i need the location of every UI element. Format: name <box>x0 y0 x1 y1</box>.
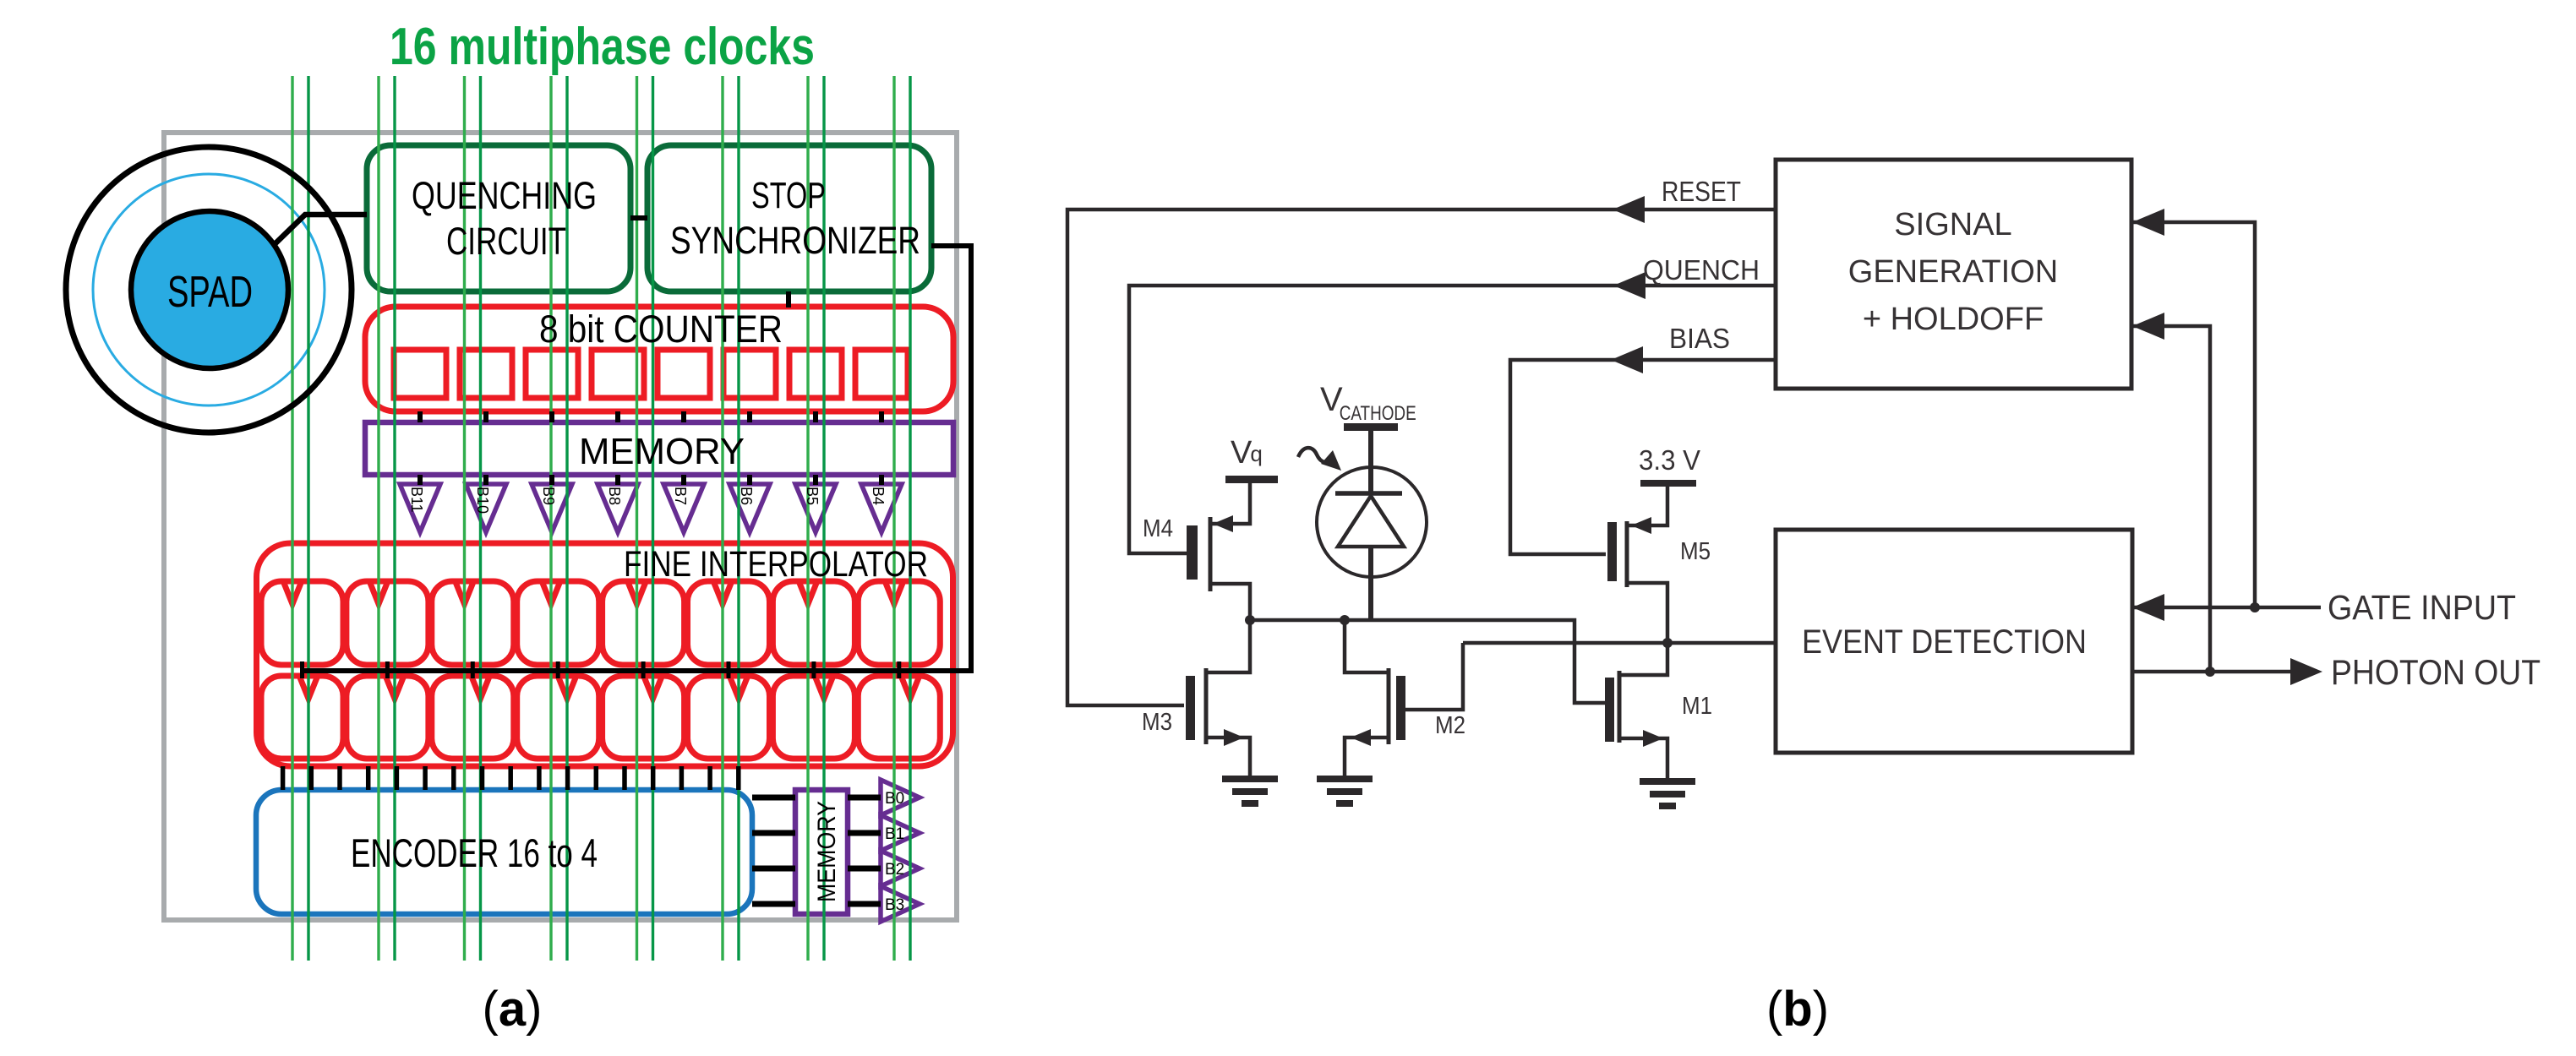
junction dot (M2 drain node) <box>1340 615 1350 625</box>
ground under M2 <box>1317 779 1373 803</box>
arrowhead RESET <box>1613 196 1645 223</box>
transistor M4 gate bar <box>1187 525 1198 580</box>
wires: output memory to buffers (4 lines) <box>848 797 881 904</box>
svg-text:B10: B10 <box>474 487 491 514</box>
svg-text:(b): (b) <box>1766 982 1829 1037</box>
svg-text:B3: B3 <box>885 896 904 914</box>
transistor M2 gate bar <box>1396 676 1405 740</box>
clock input notches row 2 (red V marks) <box>300 677 920 699</box>
wire: stop feedback line to interpolator chain <box>301 246 971 671</box>
wire: M1 drain to event line <box>1619 643 1667 675</box>
output memory box (small purple) <box>795 790 848 914</box>
svg-text:M2: M2 <box>1435 712 1465 739</box>
junction dot (M5/M1 drain node) <box>1662 638 1673 648</box>
output buffers B11..B4 (purple triangles) <box>400 484 902 532</box>
arrowhead into signal generation (top right) <box>2132 209 2164 236</box>
memory bar (purple) <box>365 422 953 475</box>
transistor M5 channel <box>1625 521 1629 587</box>
ground under M3 <box>1222 779 1278 803</box>
wire: M2 gate to event line <box>1405 643 1463 710</box>
clock input notches row 1 (red V marks) <box>284 582 903 604</box>
transistor M3 channel <box>1204 668 1209 744</box>
wires: interpolator outputs to encoder (17 ticks) <box>283 766 739 790</box>
wire: M5 source to 3.3V <box>1627 487 1667 525</box>
wire: M1 source to ground <box>1619 738 1667 781</box>
svg-text:B11: B11 <box>408 487 425 513</box>
svg-text:QUENCH: QUENCH <box>1643 254 1760 286</box>
svg-text:(a): (a) <box>483 982 543 1037</box>
wire: gate input feedback up to signal generation <box>2132 222 2255 607</box>
svg-text:CIRCUIT: CIRCUIT <box>446 220 566 263</box>
M1 source arrow <box>1643 730 1663 747</box>
delay cells row 2 (8 red rounded squares) <box>261 676 940 759</box>
ground under M1 <box>1640 781 1695 806</box>
arrowhead QUENCH <box>1613 272 1645 299</box>
wire: M3 source to ground <box>1206 738 1250 779</box>
wires: chain stubs to delay cells (8 ticks) <box>303 661 899 678</box>
fine interpolator box <box>257 543 953 766</box>
svg-text:B6: B6 <box>738 487 755 505</box>
wire: GATE INPUT <box>2132 606 2321 610</box>
counter bit cells (8 red squares) <box>394 350 908 398</box>
svg-text:GENERATION: GENERATION <box>1848 254 2058 290</box>
svg-text:BIAS: BIAS <box>1669 323 1730 354</box>
arrowhead BIAS <box>1611 346 1643 373</box>
svg-text:3.3 V: 3.3 V <box>1639 444 1700 476</box>
event detection box <box>1776 530 2132 753</box>
svg-text:M3: M3 <box>1142 709 1172 736</box>
SPAD diode triangle <box>1338 496 1404 547</box>
svg-text:Vq: Vq <box>1231 435 1263 471</box>
svg-text:SPAD: SPAD <box>167 268 253 317</box>
arrowhead into signal generation (lower right) <box>2132 313 2164 340</box>
wires: memory to buffers (8 ticks) <box>420 475 881 485</box>
wire: BIAS (to M5 gate) <box>1510 360 1776 554</box>
wire: Vcathode to diode <box>1368 431 1373 493</box>
svg-text:SIGNAL: SIGNAL <box>1894 207 2011 242</box>
wire: diode anode to node <box>1368 547 1373 620</box>
transistor M5 gate bar <box>1607 522 1617 581</box>
svg-text:B5: B5 <box>804 487 821 505</box>
svg-text:16 multiphase clocks: 16 multiphase clocks <box>390 18 815 76</box>
wire: M3 drain to node <box>1206 620 1250 672</box>
wires: encoder to output memory (4 lines) <box>752 797 795 904</box>
wire: anode node line to M1 gate <box>1250 620 1605 703</box>
M4 source arrow (PMOS) <box>1213 515 1233 532</box>
svg-text:M1: M1 <box>1682 693 1712 720</box>
wire: M4 drain to anode node <box>1210 584 1250 620</box>
svg-text:M5: M5 <box>1680 538 1711 565</box>
svg-text:M4: M4 <box>1143 515 1173 542</box>
svg-text:8 bit COUNTER: 8 bit COUNTER <box>539 308 783 351</box>
SPAD diode circle <box>1317 467 1427 577</box>
svg-text:PHOTON OUT: PHOTON OUT <box>2331 652 2541 692</box>
wire: PHOTON OUT <box>2132 670 2292 674</box>
M3 source arrow <box>1224 729 1244 746</box>
wire: M5 drain to event line <box>1627 583 1667 643</box>
arrowhead photon out <box>2290 658 2322 685</box>
svg-text:SYNCHRONIZER: SYNCHRONIZER <box>670 219 920 262</box>
3.3V supply bar <box>1640 480 1696 487</box>
buffer labels B0..B3 <box>885 790 904 914</box>
svg-text:MEMORY: MEMORY <box>813 801 841 902</box>
wire: M2 drain to node <box>1345 620 1389 672</box>
svg-text:STOP: STOP <box>751 175 826 216</box>
svg-text:QUENCHING: QUENCHING <box>412 174 597 217</box>
junction dot (M4 drain / M3 drain node) <box>1245 615 1255 625</box>
svg-text:B7: B7 <box>672 487 689 505</box>
transistor M2 channel <box>1387 668 1391 744</box>
svg-text:RESET: RESET <box>1662 176 1741 207</box>
transistor M1 gate bar <box>1605 678 1614 742</box>
encoder 16 to 4 box (blue) <box>256 790 752 914</box>
SPAD outer circle (black) <box>66 147 352 433</box>
wire: QUENCH (to M4 gate) <box>1129 286 1776 553</box>
Vcathode supply bar <box>1344 423 1398 431</box>
svg-text:MEMORY: MEMORY <box>579 431 745 472</box>
wire: node line to event detection <box>1463 641 1776 645</box>
stop synchronizer box <box>647 145 931 291</box>
wire: photon out feedback up to signal generation <box>2132 326 2210 672</box>
output buffers B0..B3 (purple triangles) <box>881 780 920 922</box>
SPAD diode cathode bar <box>1335 491 1402 496</box>
junction dot (photon out line) <box>2205 667 2215 677</box>
arrowhead gate input into event detection <box>2132 594 2164 621</box>
svg-text:+ HOLDOFF: + HOLDOFF <box>1863 302 2044 337</box>
avalanche squiggle arrow <box>1298 448 1341 471</box>
buffer labels B11..B4 (rotated) <box>408 487 887 514</box>
M5 source arrow (PMOS) <box>1631 517 1651 534</box>
svg-text:EVENT DETECTION: EVENT DETECTION <box>1802 623 2087 661</box>
wire: quenching to stop synchronizer <box>630 215 647 220</box>
svg-text:B9: B9 <box>540 487 557 505</box>
M2 source arrow <box>1351 729 1371 746</box>
svg-text:ENCODER 16 to 4: ENCODER 16 to 4 <box>351 830 598 875</box>
svg-text:B4: B4 <box>870 487 887 505</box>
svg-text:FINE INTERPOLATOR: FINE INTERPOLATOR <box>624 544 928 585</box>
wire: stop synchronizer to counter <box>786 291 791 308</box>
svg-text:GATE INPUT: GATE INPUT <box>2328 588 2516 627</box>
SPAD active area (blue filled circle) <box>131 211 288 368</box>
transistor M1 channel <box>1618 671 1622 743</box>
transistor M4 channel <box>1209 517 1213 591</box>
svg-text:B0: B0 <box>885 790 904 808</box>
svg-text:B8: B8 <box>606 487 623 505</box>
svg-text:B1: B1 <box>885 825 904 843</box>
transistor M3 gate bar <box>1186 676 1195 740</box>
delay cells row 1 (8 red rounded squares) <box>261 581 940 665</box>
svg-text:B2: B2 <box>885 861 904 879</box>
wire: M2 source to ground <box>1345 738 1389 779</box>
pixel boundary (gray outline) <box>164 133 957 920</box>
wire: M4 source to Vq <box>1210 483 1250 524</box>
SPAD guard-ring circle (thin blue) <box>93 174 325 406</box>
quenching circuit box Q1 <box>367 145 630 291</box>
Vq supply bar <box>1225 476 1278 483</box>
signal generation + holdoff label <box>1848 207 2058 337</box>
signal generation + holdoff box <box>1776 160 2131 389</box>
16 multiphase clock lines (green) <box>292 76 910 961</box>
wire: RESET (to M3 gate) <box>1067 210 1776 705</box>
wire: SPAD to quenching circuit <box>276 215 367 243</box>
junction dot (gate input line) <box>2250 602 2260 612</box>
wires: counter to memory (8 ticks) <box>420 411 881 422</box>
8 bit counter box <box>365 307 953 411</box>
svg-text:VCATHODE: VCATHODE <box>1320 381 1416 425</box>
